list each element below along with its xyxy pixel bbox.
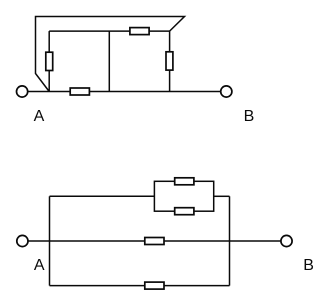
resistor R8 (bottom branch) (145, 282, 164, 289)
resistor R1 (bottom rail, between node A junction and middle vertical) (70, 88, 89, 95)
wire: middle vertical (108, 31, 110, 91)
terminal B (top circuit) (221, 86, 232, 97)
wire: parallel box outline (154, 181, 213, 211)
wire: outer loop (diagonal up-left, left vertical, top rail, diagonal down-right) (36, 17, 185, 92)
resistor R6 (parallel box, lower) (175, 208, 194, 215)
wire: top branch left segment (50, 195, 155, 197)
wire: right branch vertical (169, 31, 171, 91)
terminal A (top circuit) (17, 86, 28, 97)
svg-text:B: B (303, 257, 314, 274)
svg-text:B: B (244, 108, 255, 125)
terminal B (bottom circuit) (281, 235, 292, 246)
resistor R3 (inner top rail) (130, 28, 149, 35)
wire: left branch vertical (48, 31, 50, 91)
wire: top branch right segment (214, 195, 230, 197)
resistor R7 (middle rail) (145, 238, 164, 245)
wire: middle rail from terminal A to terminal B (28, 240, 281, 242)
wire: left vertical (49, 196, 51, 285)
svg-text:A: A (34, 257, 45, 274)
terminal A (bottom circuit) (17, 235, 28, 246)
wire: bottom rail from terminal A to terminal B (28, 91, 221, 93)
wire: inner top rail (49, 30, 169, 32)
resistor R5 (parallel box, upper) (175, 178, 194, 185)
svg-text:A: A (34, 108, 45, 125)
wire: bottom branch (50, 285, 230, 287)
wire: right vertical (229, 196, 231, 285)
resistor R4 (right branch vertical) (166, 52, 173, 70)
resistor R2 (left branch vertical) (46, 52, 53, 70)
